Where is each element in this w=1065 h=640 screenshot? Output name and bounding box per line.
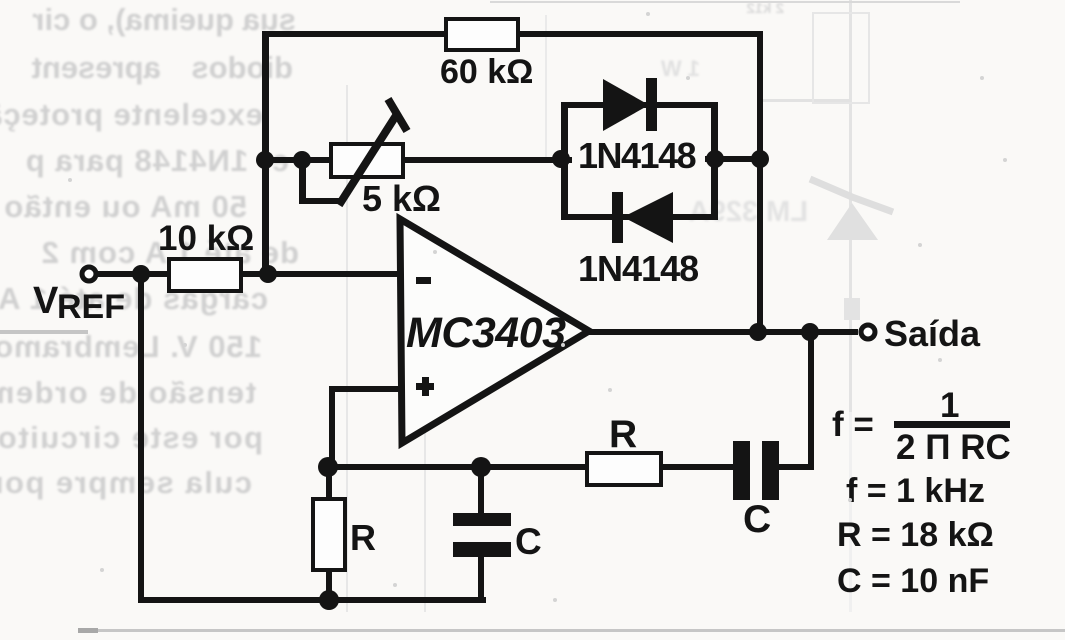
terminal output Saida bbox=[861, 325, 875, 339]
op-amp plus sign bbox=[416, 377, 434, 396]
label 1N4148 top bbox=[578, 138, 695, 174]
wire output branch vertical bbox=[808, 333, 814, 468]
wire mid row right of series C bbox=[777, 464, 814, 470]
wire non-inverting input bbox=[329, 386, 400, 392]
wire R vertical bottom lead bbox=[326, 568, 332, 601]
potentiometer 5 kOhm body bbox=[331, 144, 403, 177]
wire diode box top bbox=[561, 102, 717, 108]
capacitor C parallel plates bbox=[453, 513, 511, 557]
op-amp U1 MC3403 triangle bbox=[400, 219, 589, 443]
label 1N4148 bottom bbox=[578, 251, 698, 287]
wire diode box bottom bbox=[561, 214, 717, 220]
label MC3403 bbox=[406, 312, 566, 355]
wire parallel C top lead bbox=[478, 467, 484, 515]
resistor 10 kOhm bbox=[169, 259, 241, 291]
diode D1 1N4148 (points right) bbox=[603, 78, 657, 131]
wire bottom rail bbox=[138, 597, 486, 603]
junction node output right bbox=[801, 323, 819, 341]
wire potentiometer row bbox=[262, 157, 572, 163]
junction node Vref bbox=[132, 265, 150, 283]
junction node output left bbox=[749, 323, 767, 341]
resistor R vertical bbox=[313, 499, 345, 570]
label Saida bbox=[884, 316, 980, 352]
label 10 kOhm bbox=[158, 221, 254, 256]
junction node inverting input bbox=[259, 265, 277, 283]
wire diode box left vertical bbox=[561, 102, 568, 220]
wire Vref vertical bbox=[138, 274, 144, 603]
op-amp minus sign bbox=[416, 277, 431, 284]
wire parallel C bottom lead bbox=[478, 555, 484, 601]
terminal Vref input bbox=[82, 267, 96, 281]
junction node pot row left bbox=[256, 151, 274, 169]
diode D2 1N4148 (points left) bbox=[612, 192, 673, 243]
junction node diode box right bbox=[706, 150, 724, 168]
wire R vertical top lead bbox=[326, 467, 332, 501]
label C parallel bbox=[515, 523, 542, 560]
wire op-amp output bbox=[585, 329, 858, 335]
formula f = 1/(2 pi RC) bbox=[832, 407, 874, 442]
wire diode box right vertical bbox=[711, 102, 718, 220]
wire non-inverting vertical bbox=[329, 386, 335, 470]
label Vref bbox=[33, 282, 58, 320]
label 60 kOhm bbox=[440, 55, 533, 89]
label C series bbox=[743, 500, 771, 539]
capacitor C series plates bbox=[733, 441, 779, 500]
wire left vertical (inverting input branch) bbox=[262, 31, 269, 277]
resistor 60 kOhm bbox=[446, 19, 518, 50]
wire diode box to feedback vertical bbox=[705, 156, 763, 162]
wire top feedback bbox=[262, 31, 763, 37]
wire right feedback vertical bbox=[757, 31, 763, 335]
formula R = 18 kOhm bbox=[837, 518, 994, 552]
junction node feedback vertical bbox=[751, 150, 769, 168]
formula f = 1 kHz bbox=[846, 474, 985, 508]
wire pot wiper vertical bbox=[299, 159, 306, 204]
wire mid row left bbox=[329, 464, 737, 470]
potentiometer arrow crossbar bbox=[388, 99, 407, 131]
junction node parallel C top bbox=[471, 457, 491, 477]
junction node diode box left bbox=[552, 150, 570, 168]
label R series bbox=[609, 415, 637, 454]
junction node bottom rail bbox=[319, 590, 339, 610]
label 5 kOhm bbox=[362, 181, 441, 217]
formula C = 10 nF bbox=[837, 564, 989, 598]
junction node R top bbox=[318, 457, 338, 477]
wire pot wiper horizontal bbox=[299, 198, 341, 204]
wire input row to inverting input bbox=[96, 271, 400, 277]
faint bleed rules bbox=[0, 330, 88, 334]
potentiometer arrow diagonal bbox=[339, 114, 397, 205]
label R vertical bbox=[350, 520, 376, 556]
resistor R series bbox=[587, 453, 661, 485]
junction node pot wiper bbox=[293, 151, 311, 169]
